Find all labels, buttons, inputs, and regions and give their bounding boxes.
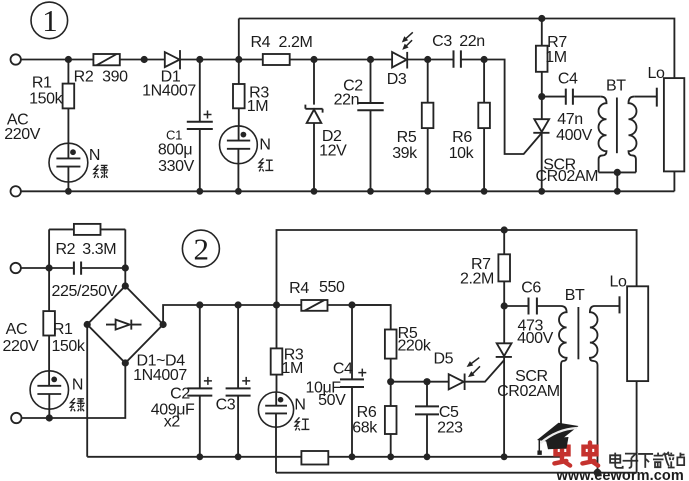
resistor R1 150k (circuit 2) (43, 268, 86, 371)
wire: J3 to series capacitor (21, 267, 74, 269)
label 绿 (green) (94, 165, 108, 178)
svg-text:2.2M: 2.2M (279, 34, 313, 51)
capacitor C1 800u 330V (158, 60, 213, 192)
transformer BT (circuit 2) primary winding (559, 306, 567, 457)
svg-text:22n: 22n (459, 33, 485, 50)
photodiode D3 (387, 32, 413, 88)
resistor R6 10k (449, 60, 490, 192)
resistor R2 390 (fusible) (74, 54, 128, 86)
neon lamp N3 (green, circuit 2) (30, 371, 83, 418)
svg-text:400V: 400V (517, 330, 553, 347)
svg-text:CR02AM: CR02AM (497, 383, 560, 400)
resistor R5 39k (392, 60, 433, 192)
svg-text:1: 1 (42, 3, 58, 38)
neon lamp N1 (green) (49, 143, 100, 191)
svg-text:R2: R2 (55, 241, 75, 258)
piezo sounder Lo (circuit 1) (648, 65, 685, 191)
watermark graduation cap board (537, 423, 579, 443)
capacitor C4 47n 400V (542, 71, 601, 144)
node (R7 top) (538, 15, 545, 22)
transformer BT secondary winding (circuit 2) (590, 306, 598, 473)
svg-text:223: 223 (437, 420, 463, 437)
node (R4 right / C4 tap) (348, 301, 355, 308)
svg-text:R6: R6 (357, 404, 377, 421)
svg-text:Lo: Lo (610, 274, 627, 291)
watermark site name 载 (653, 452, 669, 467)
terminal J1 (AC input top) (11, 54, 21, 64)
circuit label 1 (31, 2, 68, 39)
svg-text:R5: R5 (397, 129, 417, 146)
svg-text:CR02AM: CR02AM (536, 168, 599, 185)
svg-text:1M: 1M (247, 98, 268, 115)
transformer BT (circuit 1) primary winding (599, 97, 607, 173)
node (neon N3 bottom) (46, 414, 53, 421)
svg-text:C4: C4 (558, 71, 578, 88)
svg-text:10k: 10k (449, 145, 475, 162)
label 绿 (green, circuit 2) (70, 398, 84, 411)
svg-text:N: N (294, 397, 305, 414)
wire: bottom rail (circuit 2) (328, 456, 561, 458)
wire: D3 to C3 (407, 59, 453, 61)
bridge rectifier D1~D4 1N4007 (84, 282, 188, 384)
capacitor C4 10uF 50V (305, 305, 366, 457)
wire: bridge plus (right corner) up to top rail of circuit 2 (163, 305, 391, 325)
node B (C1 tap) (196, 56, 203, 63)
svg-text:C6: C6 (521, 279, 541, 296)
node (R2 branch tap left) (46, 264, 53, 271)
wire: D5 to SCR gate (465, 360, 504, 382)
svg-text:47n: 47n (557, 111, 583, 128)
node (C2 top) (196, 301, 203, 308)
svg-text:C3: C3 (216, 397, 236, 414)
svg-text:225/250V: 225/250V (52, 283, 118, 300)
watermark red character 虫 (2) (582, 443, 598, 466)
wire: C3 to gate run (461, 60, 542, 155)
svg-text:1M: 1M (281, 360, 302, 377)
wire: bottom rail (circuit 1) (21, 190, 675, 192)
svg-text:22n: 22n (334, 91, 360, 108)
svg-text:BT: BT (565, 287, 585, 304)
svg-text:1N4007: 1N4007 (133, 367, 187, 384)
node dots on circuit 2 bottom rail (196, 453, 507, 460)
svg-text:C2: C2 (170, 385, 190, 402)
capacitor C3 (second filter) (216, 305, 251, 457)
resistor R5 220k (385, 325, 432, 382)
node D (R7 / C4 / SCR anode) (538, 93, 545, 100)
svg-text:550: 550 (319, 279, 345, 296)
svg-text:AC: AC (6, 321, 27, 338)
watermark graduation cap body (546, 437, 569, 449)
resistor R1 150k (29, 60, 74, 144)
wire: R2 branch (up and over) (49, 229, 125, 268)
node (R5/R6 junction) (387, 378, 394, 385)
resistor R7 1M (536, 19, 567, 97)
svg-text:2.2M: 2.2M (460, 270, 494, 287)
svg-text:150k: 150k (51, 338, 85, 355)
watermark site name 子 (623, 454, 639, 468)
wire: R4 to D3 (290, 59, 392, 61)
wire: BT bottom bar and lead to rail (599, 172, 636, 191)
wire: secondary to Lo plate (circuit 2) (595, 305, 620, 307)
resistor R2 3.3M (55, 224, 116, 258)
watermark graduation cap stripe (541, 428, 578, 443)
terminal J2 (AC input bottom) (11, 186, 21, 196)
watermark site name 站 (668, 453, 685, 468)
capacitor C3 22n (432, 33, 485, 68)
label AC 220V (circuit 1) (4, 111, 40, 143)
svg-text:R6: R6 (452, 129, 472, 146)
transformer BT secondary winding (629, 97, 637, 173)
wire: top rail across to Lo (239, 19, 675, 79)
wire: outer loop top (circuit 2) (277, 230, 637, 305)
wire: bridge minus (left corner) down to bottom rail (87, 325, 301, 457)
node (bridge AC top tap) (122, 264, 129, 271)
watermark red character 虫 (1) (554, 443, 598, 466)
resistor R3 1M (circuit 2) (271, 305, 304, 392)
capacitor 225/250V (series) (52, 262, 126, 300)
svg-text:C4: C4 (333, 361, 353, 378)
svg-text:R4: R4 (289, 280, 309, 297)
wire: R2 to D1 (120, 59, 165, 61)
node (R7 top, circuit 2) (501, 226, 508, 233)
node (C3 top) (235, 301, 242, 308)
watermark graduation cap tassel (538, 440, 540, 451)
node (R6 tap) (481, 56, 488, 63)
svg-text:C1: C1 (166, 128, 182, 143)
svg-text:12V: 12V (319, 143, 347, 160)
svg-text:220k: 220k (397, 338, 431, 355)
svg-text:150k: 150k (29, 90, 63, 107)
neon lamp N4 (red, circuit 2) (258, 392, 305, 473)
circuit label 2 (182, 230, 219, 267)
thyristor SCR CR02AM (circuit 1) (533, 97, 598, 192)
terminal J4 (AC input bottom, circuit 2) (11, 413, 21, 423)
piezo sounder Lo (circuit 2) (610, 274, 649, 473)
svg-text:N: N (89, 147, 100, 164)
wire: down to bridge top corner (124, 268, 126, 286)
zener D2 12V (305, 60, 347, 192)
neon lamp N2 (red) (220, 126, 271, 192)
wire: D1 to R4 (180, 59, 263, 61)
svg-text:1N4007: 1N4007 (142, 83, 196, 100)
wire: J1 to R2 (21, 59, 94, 61)
node (R5 tap) (424, 56, 431, 63)
svg-text:N: N (259, 137, 270, 154)
svg-text:39k: 39k (392, 145, 418, 162)
svg-text:BT: BT (606, 78, 626, 95)
resistor R7 2.2M (circuit 2) (460, 230, 510, 306)
svg-text:330V: 330V (158, 158, 194, 175)
node (C5 top) (423, 378, 430, 385)
svg-text:www.eeworm.com: www.eeworm.com (556, 468, 684, 481)
svg-text:2: 2 (194, 232, 210, 267)
node (secondary bottom on loop) (594, 469, 602, 477)
wire: middle node run (R5 bottom to D5) (391, 381, 449, 383)
svg-text:R2: R2 (74, 69, 94, 86)
transformer BT core (circuit 2) (577, 307, 579, 359)
node (BT bottom junction) (614, 169, 621, 176)
svg-text:C3: C3 (432, 33, 452, 50)
svg-text:D3: D3 (387, 71, 407, 88)
node dots on bottom rail (65, 188, 621, 195)
capacitor C2 22n (334, 60, 384, 192)
wire: R4 right to R5 (352, 305, 391, 330)
transformer BT core (616, 98, 618, 154)
svg-text:50V: 50V (318, 392, 346, 409)
svg-text:R1: R1 (53, 321, 73, 338)
wire: J4 to bridge bottom corner (22, 363, 126, 418)
svg-text:1M: 1M (545, 49, 566, 66)
svg-text:3.3M: 3.3M (82, 241, 116, 258)
svg-text:220V: 220V (4, 126, 40, 143)
label 红 (red) (259, 158, 273, 171)
node (R3/R4/outer-loop tap) (273, 301, 280, 308)
terminal J3 (AC input top, circuit 2) (11, 263, 21, 273)
capacitor C5 223 (415, 382, 463, 457)
watermark site name 下 (638, 454, 653, 468)
wire: secondary to Lo plate (634, 96, 656, 98)
node (R7 bottom / C6 / SCR anode) (501, 302, 508, 309)
svg-text:220V: 220V (3, 338, 39, 355)
wire: outer bottom loop (neon N4 to Lo) (276, 472, 637, 474)
node (C2 tap) (367, 56, 374, 63)
svg-text:N: N (72, 377, 83, 394)
thyristor SCR CR02AM (circuit 2) (496, 306, 560, 457)
svg-text:R4: R4 (250, 34, 270, 51)
label AC 220V (circuit 2) (3, 321, 39, 355)
svg-text:R1: R1 (32, 75, 52, 92)
svg-text:400V: 400V (556, 127, 592, 144)
node (R2-D1) (141, 56, 148, 63)
node (D2 tap) (310, 56, 317, 63)
svg-text:Lo: Lo (648, 65, 665, 82)
diode D1 1N4007 (142, 50, 196, 99)
svg-text:D5: D5 (433, 350, 453, 367)
svg-text:68k: 68k (352, 420, 378, 437)
svg-text:800μ: 800μ (158, 142, 192, 159)
wire: riser to top rail (238, 19, 240, 60)
photodiode D5 (433, 350, 480, 390)
fusible link (unlabeled, bottom rail) (301, 451, 328, 465)
node C (R3 / top-rail riser) (235, 56, 242, 63)
svg-text:390: 390 (102, 69, 128, 86)
svg-text:C5: C5 (439, 404, 459, 421)
label 红 (red, circuit 2) (295, 417, 309, 430)
resistor R4 2.2M (250, 34, 312, 65)
watermark site name 电 (610, 452, 684, 468)
capacitor C6 473 400V (504, 279, 561, 347)
resistor R4 550 (fusible) (289, 279, 345, 311)
resistor R6 68k (circuit 2) (352, 382, 396, 457)
svg-text:x2: x2 (164, 414, 181, 431)
capacitor C2 409uF x2 (151, 305, 213, 457)
node A (R1 tap) (65, 56, 72, 63)
resistor R3 1M (233, 60, 269, 126)
